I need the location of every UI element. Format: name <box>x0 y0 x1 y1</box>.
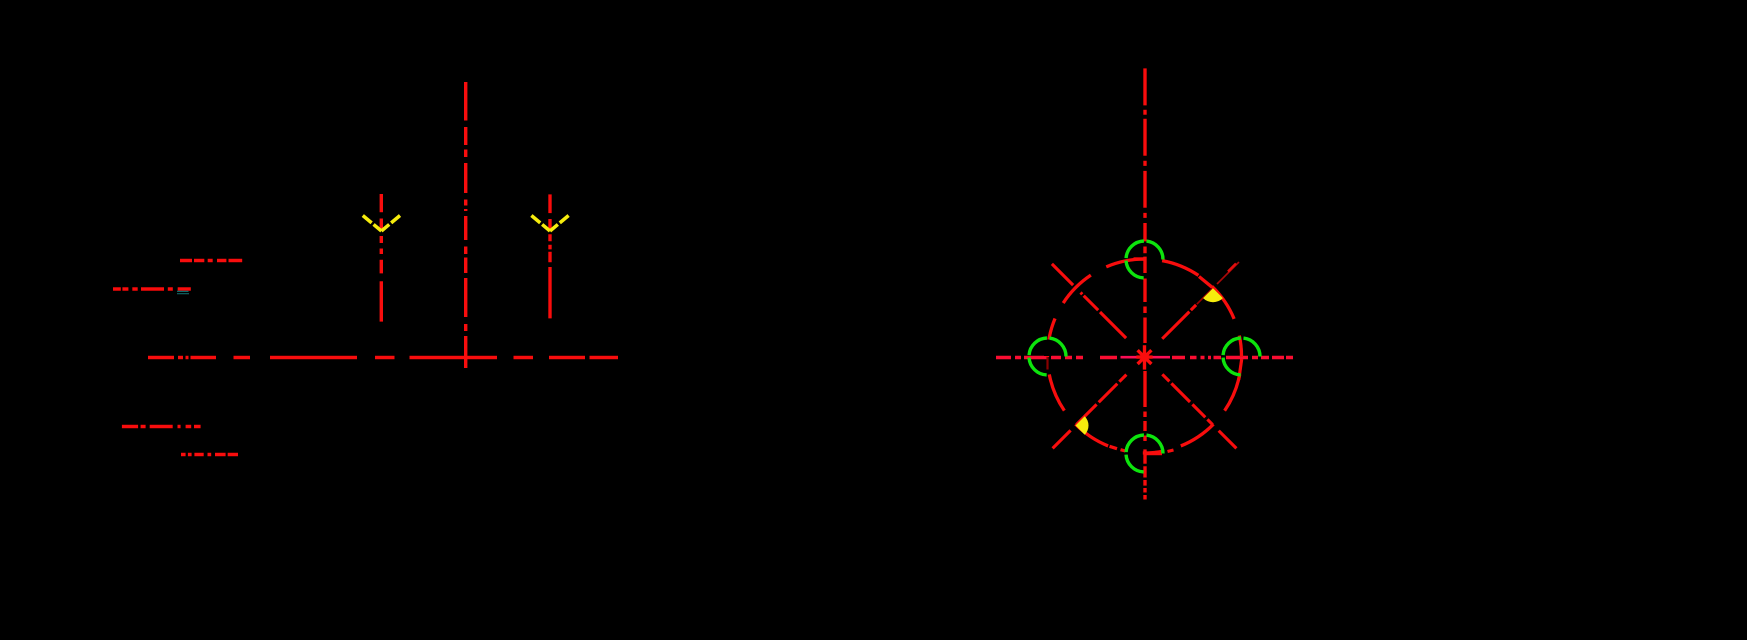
diagonal centerline NE ray outer thin dash <box>1217 262 1239 284</box>
dashed segment D (x181-238, y454.5) <box>181 453 238 456</box>
green hole arc E <box>1223 338 1260 375</box>
diagonal centerline NE ray <box>1162 305 1196 339</box>
green hole arc W <box>1029 338 1066 375</box>
vertical centerline (right view, x=1145) <box>1143 68 1146 499</box>
diagonal centerline SW ray <box>1053 375 1127 449</box>
green hole arc S <box>1126 435 1163 472</box>
yellow dashed arrow V (left) <box>363 216 382 232</box>
dark red dash at west quadrant point <box>1046 357 1048 370</box>
yellow sector NE (points down) <box>1203 288 1223 302</box>
center mark asterisk <box>1136 345 1152 369</box>
dashed segment A (x180-242, y260.5) <box>180 259 242 262</box>
bolt circle dash approaching NE wedge apex <box>1199 277 1212 288</box>
diagonal centerline SE ray <box>1162 374 1236 448</box>
bolt circle (red dashed, r=97) <box>1048 259 1242 453</box>
diagonal centerline NW ray <box>1052 264 1126 338</box>
yellow sector SW (points east) <box>1076 416 1089 434</box>
explicit bolt circle dash at top point <box>1134 257 1145 260</box>
right short vertical centerline (x=550) <box>548 194 551 318</box>
mask over bolt circle inside W hole arc <box>1044 340 1052 357</box>
dashed segment C (x122-201, y426.5) <box>122 425 201 428</box>
left short vertical centerline (x=381.3) <box>380 194 383 322</box>
bolt circle dash inside E hole arc below centerline <box>1239 359 1242 380</box>
dashed segment B (x113-191, y289) <box>113 287 191 290</box>
green hole arc N <box>1126 241 1163 278</box>
horizontal centerline thin dash through center <box>1121 356 1171 359</box>
yellow dashed arrow V (right) <box>531 216 550 232</box>
vertical centerline (left view center, x=465.7) <box>464 82 467 368</box>
horizontal centerline (left view, y=357.5) <box>148 356 618 359</box>
horizontal centerline (right view, y=357.5) <box>996 356 1293 359</box>
mask over bolt circle inside S hole arc <box>1125 448 1143 458</box>
teal tick marks under segment B <box>177 291 189 293</box>
explicit bolt circle dash at bottom point <box>1145 452 1163 455</box>
bolt circle dashes left of bottom hole <box>1110 446 1174 451</box>
